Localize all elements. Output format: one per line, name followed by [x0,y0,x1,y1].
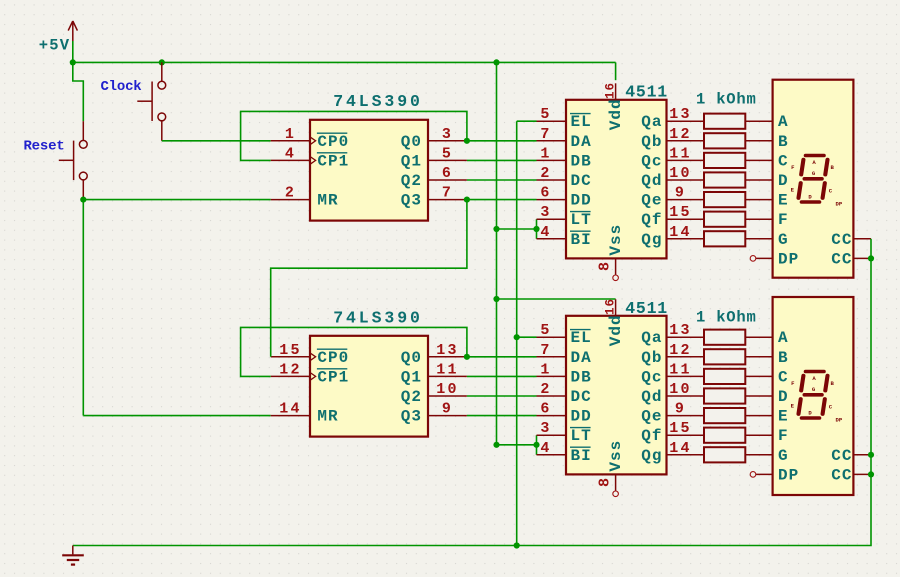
U2 pin 1 DB [537,145,592,170]
svg-text:CP1: CP1 [317,152,349,170]
svg-text:Qa: Qa [641,113,662,131]
svg-text:Q3: Q3 [401,408,422,426]
svg-text:16: 16 [604,82,618,99]
svg-text:Vss: Vss [607,224,625,256]
wire Q3 U1 to DD U2 [467,199,537,201]
svg-text:4: 4 [540,440,551,457]
svg-text:11: 11 [669,145,691,162]
svg-text:12: 12 [669,342,691,359]
svg-text:EL: EL [571,113,592,131]
svg-text:5: 5 [442,145,453,162]
svg-text:13: 13 [436,342,458,359]
svg-text:15: 15 [279,342,301,359]
svg-text:C: C [778,368,789,386]
svg-text:Q2: Q2 [401,172,422,190]
U4 pin 14 Qg [641,440,704,465]
wire +5V to LT/BI U2 [497,228,537,230]
IC U2 4511 body [566,100,667,259]
U2 pin 13 Qa [641,106,704,131]
switch SW2 Reset [59,121,87,199]
wire Q3 U3 to DD U4 [467,415,537,417]
junction CC2 DS1 [868,255,874,261]
U3 pin 13 Q0 [401,342,467,367]
wire Q2 U3 to DC U4 [467,395,537,397]
svg-text:74LS390: 74LS390 [333,308,423,327]
resistor R14 1 kOhm [704,447,745,462]
DS1 pin CC1 [831,231,871,249]
svg-text:CP1: CP1 [317,368,349,386]
svg-text:Clock: Clock [100,79,141,95]
DS1 segment letters [791,159,843,208]
svg-text:10: 10 [669,165,691,182]
svg-text:G: G [778,447,789,465]
U2 pin 15 Qf [641,204,704,229]
IC U1 74LS390 body [310,120,428,221]
U2 pin 10 Qd [641,165,704,190]
svg-text:DP: DP [836,417,843,424]
DS1 pin B [745,133,788,151]
resistor R10 1 kOhm [704,369,745,384]
DS2 pin G [745,447,788,465]
U4 pin 9 Qe [641,401,704,426]
svg-text:15: 15 [669,204,691,221]
svg-text:Qb: Qb [641,133,662,151]
DS1 pin F [745,211,788,229]
wire EL U4 to ground bus [517,336,537,338]
svg-text:CC: CC [831,250,852,268]
svg-text:Qe: Qe [641,192,662,210]
U3 pin 14 MR [271,401,339,426]
svg-text:B: B [778,133,789,151]
U1 pin 7 Q3 [401,185,467,210]
U4 pin 16 Vdd [604,298,625,346]
svg-text:Vss: Vss [607,440,625,472]
svg-text:14: 14 [279,401,301,418]
U1 pin 4 CP1 [271,145,350,170]
U4 pin 4 BI [537,440,592,465]
svg-text:+5V: +5V [39,37,71,55]
DS1 pin E [745,192,788,210]
junction clock tap [159,59,165,65]
svg-text:3: 3 [540,420,551,437]
DS1 pin D [745,172,788,190]
svg-text:14: 14 [669,224,691,241]
DS2 pin C [745,368,788,386]
U3 pin 11 Q1 [401,361,467,386]
svg-text:4511: 4511 [625,83,668,102]
junction EL U4 [514,334,520,340]
U4 pin 15 Qf [641,420,704,445]
U2 pin 5 EL [537,106,592,131]
svg-text:Q0: Q0 [401,349,422,367]
svg-text:14: 14 [669,440,691,457]
U2 pin 14 Qg [641,224,704,249]
resistor R4 1 kOhm [704,172,745,187]
svg-text:Qc: Qc [641,152,662,170]
svg-text:DB: DB [571,152,592,170]
svg-text:10: 10 [436,381,458,398]
DS1 pin G [745,231,788,249]
IC U3 74LS390 body [310,336,428,437]
svg-text:11: 11 [436,361,458,378]
U1 pin 1 CP0 [271,126,350,151]
wire Reset to MR U3 [82,200,84,416]
svg-text:6: 6 [442,165,453,182]
junction CC2 DS2 [868,471,874,477]
wire EL U2 to ground bus [517,120,537,122]
svg-text:DP: DP [778,250,799,268]
svg-text:9: 9 [442,401,453,418]
wire LT/BI bridge U2 [536,219,538,239]
wire LT/BI bridge U4 [536,435,538,455]
U4 pin 11 Qc [641,361,704,386]
svg-text:D: D [778,388,789,406]
wire +5V to LT/BI U4 [497,444,537,446]
svg-text:DD: DD [571,192,592,210]
svg-text:4: 4 [540,224,551,241]
svg-text:Qf: Qf [641,211,662,229]
U4 pin 12 Qb [641,342,704,367]
DS2 pin D [745,388,788,406]
DS2 segment letters [791,375,843,424]
svg-text:C: C [778,152,789,170]
wire +5V drop to LT/BI [496,62,498,444]
junction +5V drop [493,59,499,65]
svg-text:2: 2 [540,165,551,182]
junction LT/BI U2 [533,226,539,232]
svg-text:DA: DA [571,133,592,151]
U2 pin 6 DD [537,185,592,210]
svg-text:1: 1 [285,126,296,143]
svg-text:7: 7 [442,185,453,202]
junction ground bus [514,542,520,548]
svg-text:BI: BI [571,447,592,465]
svg-text:EL: EL [571,329,592,347]
junction +5V [70,59,76,65]
svg-text:CP0: CP0 [317,133,349,151]
svg-text:E: E [778,408,789,426]
resistor R7 1 kOhm [704,231,745,246]
U3 pin 15 CP0 [271,342,350,367]
resistor R1 1 kOhm [704,114,745,129]
U1 pin 5 Q1 [401,145,467,170]
DS2 pin F [745,427,788,445]
svg-text:Qd: Qd [641,172,662,190]
svg-text:DP: DP [836,201,843,208]
svg-text:DA: DA [571,349,592,367]
junction Q3 U1 [464,197,470,203]
svg-text:5: 5 [540,106,551,123]
svg-text:Qf: Qf [641,427,662,445]
svg-text:DC: DC [571,172,592,190]
wire Vdd drop U2 [615,62,617,80]
resistor R6 1 kOhm [704,212,745,227]
U2 pin 9 Qe [641,185,704,210]
resistor R9 1 kOhm [704,349,745,364]
svg-text:DC: DC [571,388,592,406]
U4 pin 13 Qa [641,322,704,347]
svg-text:Reset: Reset [23,139,64,155]
display DS1 7-segment body [773,80,854,278]
power symbol +5V [39,21,78,55]
wire [72,41,74,62]
svg-text:DD: DD [571,408,592,426]
wire +5V rail [73,61,616,63]
svg-text:11: 11 [669,361,691,378]
svg-text:12: 12 [279,361,301,378]
svg-text:A: A [778,113,789,131]
DS2 7-segment digit [799,372,828,419]
svg-text:5: 5 [540,322,551,339]
wire +5V to Reset switch [73,62,84,121]
U2 pin 4 BI [537,224,592,249]
svg-text:6: 6 [540,401,551,418]
svg-text:LT: LT [571,211,592,229]
svg-text:Qg: Qg [641,231,662,249]
svg-text:1 kOhm: 1 kOhm [696,91,757,109]
wire ground drop from EL U2 [516,121,518,545]
ground [62,546,84,565]
U2 pin 2 DC [537,165,592,190]
svg-text:8: 8 [597,476,614,487]
junction Vdd U4 tap [493,296,499,302]
U1 pin 6 Q2 [401,165,467,190]
wire [162,140,271,142]
svg-text:Qd: Qd [641,388,662,406]
DS1 7-segment digit [799,156,828,203]
svg-text:Qb: Qb [641,349,662,367]
resistor R12 1 kOhm [704,408,745,423]
svg-text:G: G [778,231,789,249]
svg-text:F: F [778,211,789,229]
U3 pin 9 Q3 [401,401,467,426]
svg-text:13: 13 [669,322,691,339]
junction Q0 U1 [464,138,470,144]
wire to MR U3 pin 14 [83,415,270,417]
U4 pin 10 Qd [641,381,704,406]
DS2 pin B [745,349,788,367]
svg-text:1 kOhm: 1 kOhm [696,309,757,327]
switch SW1 Clock [137,62,165,140]
U4 pin 1 DB [537,361,592,386]
U4 pin 5 EL [537,322,592,347]
svg-text:4511: 4511 [625,299,668,318]
junction Reset/MR [80,197,86,203]
DS2 pin CC2 [831,466,871,484]
resistor R8 1 kOhm [704,330,745,345]
svg-text:Qa: Qa [641,329,662,347]
DS2 pin A [745,329,788,347]
wire +5V branch to Vdd U4 [497,298,616,300]
svg-text:Q2: Q2 [401,388,422,406]
svg-text:MR: MR [317,192,338,210]
svg-text:8: 8 [597,260,614,271]
DS1 pin CC2 [831,250,871,268]
svg-text:2: 2 [285,185,296,202]
U2 pin 16 Vdd [604,82,625,130]
svg-text:Vdd: Vdd [607,98,625,130]
IC U4 4511 body [566,316,667,475]
svg-text:3: 3 [540,204,551,221]
DS1 pin DP unconnected [750,250,799,268]
DS2 pin E [745,408,788,426]
svg-text:16: 16 [604,298,618,315]
svg-text:74LS390: 74LS390 [333,92,423,111]
svg-text:7: 7 [540,126,551,143]
svg-text:B: B [778,349,789,367]
wire Reset to MR U1 [83,199,270,201]
svg-text:9: 9 [675,185,686,202]
svg-text:E: E [778,192,789,210]
svg-text:Q0: Q0 [401,133,422,151]
junction +5V LT/BI U2 [493,226,499,232]
svg-text:CC: CC [831,466,852,484]
DS1 pin A [745,113,788,131]
svg-text:MR: MR [317,408,338,426]
wire Q0 U3 to DA U4 [467,356,537,358]
wire Q0 U1 to DA U2 [467,140,537,142]
U2 pin 7 DA [537,126,592,151]
U4 pin 6 DD [537,401,592,426]
U3 pin 12 CP1 [271,361,350,386]
resistor R13 1 kOhm [704,428,745,443]
svg-text:15: 15 [669,420,691,437]
U2 pin 12 Qb [641,126,704,151]
svg-text:3: 3 [442,126,453,143]
wire Q0 U3 to CP1 U3 loop [241,327,467,376]
svg-text:Q3: Q3 [401,192,422,210]
wire Q1 U3 to DB U4 [467,375,537,377]
svg-text:1: 1 [540,361,551,378]
svg-text:BI: BI [571,231,592,249]
U4 pin 2 DC [537,381,592,406]
svg-text:CP0: CP0 [317,349,349,367]
svg-text:CC: CC [831,231,852,249]
svg-text:13: 13 [669,106,691,123]
junction Q0 U3 [464,354,470,360]
wire Q0 U1 to CP1 U1 loop [241,111,467,160]
wire Q3 U1 cascade to CP0 U3 [271,200,467,357]
resistor R2 1 kOhm [704,133,745,148]
svg-text:Qg: Qg [641,447,662,465]
DS2 pin DP unconnected [750,466,799,484]
U1 pin 2 MR [271,185,339,210]
svg-text:9: 9 [675,401,686,418]
DS1 pin C [745,152,788,170]
svg-text:Q1: Q1 [401,368,422,386]
svg-text:DB: DB [571,368,592,386]
resistor R3 1 kOhm [704,153,745,168]
U4 pin 3 LT [537,420,592,445]
U2 pin 8 Vss [597,224,626,281]
svg-text:F: F [778,427,789,445]
U2 pin 3 LT [537,204,592,229]
svg-text:CC: CC [831,447,852,465]
U1 pin 3 Q0 [401,126,467,151]
DS2 pin CC1 [831,447,871,465]
svg-text:D: D [778,172,789,190]
junction +5V LT/BI U4 [493,442,499,448]
junction LT/BI U4 [533,442,539,448]
svg-text:Vdd: Vdd [607,314,625,346]
U3 pin 10 Q2 [401,381,467,406]
svg-text:Qe: Qe [641,408,662,426]
display DS2 7-segment body [773,297,854,495]
svg-text:6: 6 [540,185,551,202]
svg-text:Qc: Qc [641,368,662,386]
svg-text:Q1: Q1 [401,152,422,170]
U4 pin 8 Vss [597,440,626,497]
resistor R5 1 kOhm [704,192,745,207]
wire Q2 U1 to DC U2 [467,179,537,181]
svg-text:4: 4 [285,145,296,162]
svg-text:A: A [778,329,789,347]
resistor R11 1 kOhm [704,388,745,403]
svg-text:DP: DP [778,466,799,484]
junction CC1 DS2 [868,452,874,458]
svg-text:LT: LT [571,427,592,445]
svg-text:2: 2 [540,381,551,398]
svg-text:10: 10 [669,381,691,398]
U2 pin 11 Qc [641,145,704,170]
U4 pin 7 DA [537,342,592,367]
svg-text:7: 7 [540,342,551,359]
svg-text:1: 1 [540,145,551,162]
wire Q1 U1 to DB U2 [467,159,537,161]
wire CC bus right [73,239,871,546]
svg-text:12: 12 [669,126,691,143]
